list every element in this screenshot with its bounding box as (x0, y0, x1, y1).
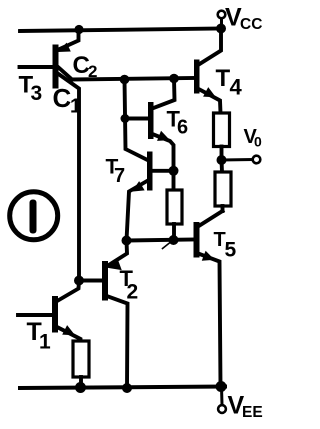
wire T6 base (125, 117, 148, 121)
svg-text:CC: CC (240, 16, 262, 33)
stray mark (163, 243, 171, 249)
node V0 (217, 155, 227, 165)
transistor T4 (NPN) (194, 29, 221, 114)
svg-text:7: 7 (114, 165, 125, 187)
wire VCC rail (20, 29, 221, 32)
svg-text:1: 1 (70, 96, 81, 118)
node R3 / T5 base bus (169, 235, 179, 245)
svg-text:2: 2 (127, 281, 139, 304)
wire T6/T7 base feed (125, 80, 148, 161)
node R4 / VEE rail (75, 382, 86, 393)
resistor R3 (167, 171, 182, 240)
wire VEE rail (20, 387, 225, 389)
VCC terminal (220, 19, 223, 26)
svg-text:C: C (53, 83, 72, 113)
node input bus / T1 collector / T2 base (74, 276, 84, 286)
wire V0 (222, 158, 253, 162)
wire base bus y=79 (72, 78, 194, 80)
node base bus / T6 collector (169, 74, 179, 84)
node VCC rail / T3 emitter (74, 25, 83, 34)
transistor T3 (dual-collector PNP) (20, 30, 80, 281)
transistor T5 (NPN) (194, 211, 223, 386)
svg-text:5: 5 (225, 239, 237, 262)
svg-text:EE: EE (242, 404, 263, 421)
node T2 emitter tap (122, 236, 132, 246)
transistor T1 (NPN) (18, 281, 81, 342)
resistor R2 (215, 160, 231, 211)
transistor T6 (NPN) (148, 79, 175, 167)
transistor T2 (PNP) (79, 241, 128, 389)
svg-text:6: 6 (177, 117, 188, 139)
svg-text:4: 4 (230, 75, 243, 100)
resistor R1 (214, 113, 230, 160)
wire T5 base bus (127, 240, 195, 241)
node T6 base tap (121, 114, 130, 123)
transistor T7 (NPN mirrored) (127, 152, 174, 241)
VEE terminal (220, 387, 224, 405)
node base bus / T6-T7 branch (120, 75, 130, 85)
svg-text:0: 0 (254, 134, 262, 150)
node T6 emitter / T7 collector / R3 (169, 166, 179, 176)
svg-text:1: 1 (39, 331, 51, 354)
node VCC rail / T4 collector (216, 24, 226, 34)
V0 terminal (253, 156, 261, 164)
figure number badge (circled 1) (10, 192, 58, 240)
svg-text:T: T (216, 65, 231, 92)
node T2 collector / VEE rail (122, 383, 132, 393)
svg-text:3: 3 (31, 82, 43, 105)
node VEE rail / T5 emitter (216, 381, 227, 392)
resistor R4 (73, 341, 89, 387)
